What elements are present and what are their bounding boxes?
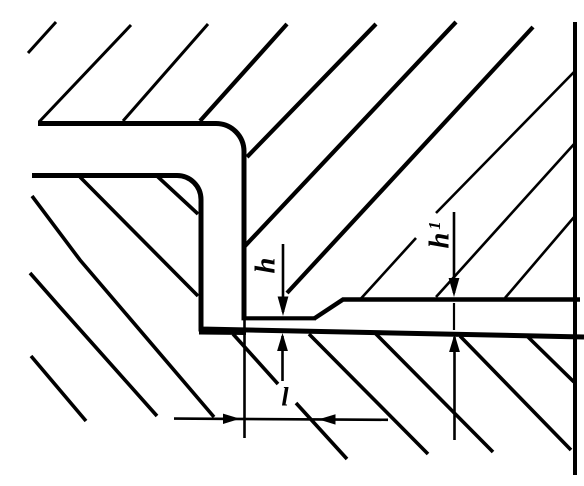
hatch D1b [296,403,347,459]
hatch B0 [32,196,214,417]
hatch T1 lower segment [361,238,416,299]
hatch B4 [31,356,86,421]
dim h1 upper line [453,212,456,293]
hatch L5 [247,24,376,157]
pocket bottom thick overlay [199,330,246,336]
upper die outline: top face and cavity wall [38,124,244,319]
dim l right-pointing arrowhead [223,414,240,424]
hatch B2 [157,176,198,214]
hatch L2 [39,25,131,122]
svg-text:h: h [424,232,456,248]
dim l extension line [243,320,246,438]
hatch B3 [30,273,157,416]
hatch D1 [309,334,428,454]
lower die outline [32,176,584,338]
hatch T1 upper segment [436,71,575,213]
hatch D2 [375,333,493,452]
dim h lower line [281,336,284,381]
dim h1 extension tick [453,303,455,330]
hatch L6 [244,22,456,247]
dim l left-pointing arrowhead [319,414,336,424]
svg-text:l: l [281,382,289,411]
dim h1 lower arrowhead [449,334,460,352]
hatch L4 [200,24,287,121]
svg-text:h: h [250,257,282,273]
svg-text:1: 1 [425,221,444,230]
hatch D4 [527,336,574,382]
hatch L3 [123,24,208,121]
upper die flash land (narrow gap top line) [242,316,317,320]
dim h upper arrowhead [278,297,289,317]
dim h upper line [282,244,285,312]
dim h1 upper arrowhead [449,278,460,297]
dim l shaft [174,419,388,420]
upper die gutter step and right face [315,300,581,319]
hatch D0 [233,334,278,384]
right border [573,22,577,475]
hatch stub top-left [28,22,56,53]
hatch B1 [80,177,198,296]
hatch L7 [287,27,533,293]
hatch T3 [505,216,575,298]
hatch D3 [460,336,571,450]
dim h1 lower line [453,337,456,440]
dim h lower arrowhead [277,333,288,351]
hatch T2 [436,143,575,297]
